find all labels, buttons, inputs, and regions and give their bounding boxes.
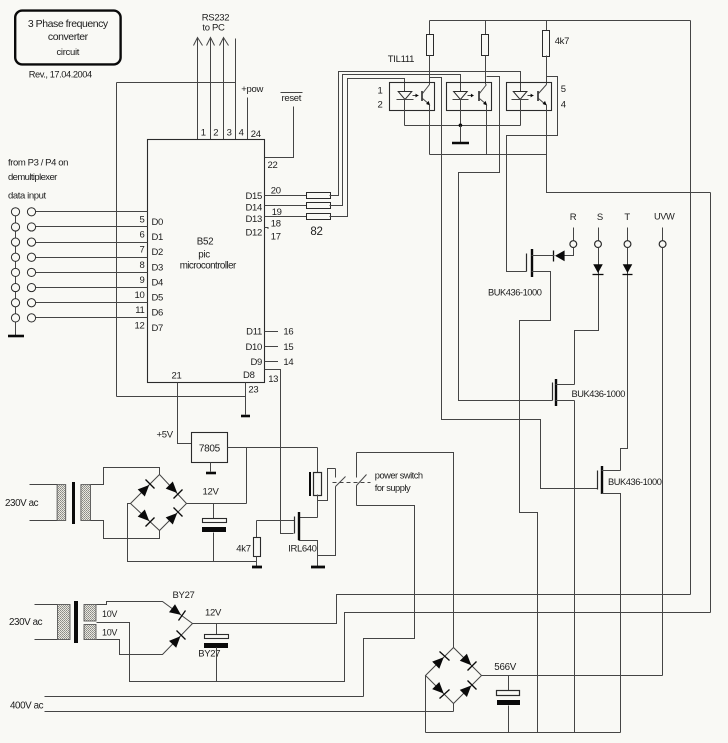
svg-text:Rev., 17.04.2004: Rev., 17.04.2004 bbox=[29, 70, 92, 80]
svg-text:BUK436-1000: BUK436-1000 bbox=[608, 477, 662, 487]
svg-text:14: 14 bbox=[283, 357, 293, 368]
svg-text:S: S bbox=[597, 212, 603, 223]
svg-text:24: 24 bbox=[251, 129, 261, 140]
svg-text:microcontroller: microcontroller bbox=[180, 261, 237, 272]
svg-text:3 Phase frequency: 3 Phase frequency bbox=[28, 18, 109, 30]
svg-text:BY27: BY27 bbox=[173, 590, 195, 601]
svg-text:D8: D8 bbox=[243, 370, 255, 381]
svg-text:+5V: +5V bbox=[157, 430, 174, 441]
svg-text:for supply: for supply bbox=[375, 483, 411, 493]
svg-text:8: 8 bbox=[140, 260, 145, 271]
svg-text:17: 17 bbox=[271, 232, 281, 243]
svg-text:12V: 12V bbox=[205, 608, 222, 619]
svg-text:13: 13 bbox=[268, 374, 278, 385]
svg-text:11: 11 bbox=[135, 305, 144, 316]
svg-text:4k7: 4k7 bbox=[555, 36, 569, 47]
svg-text:D13: D13 bbox=[245, 214, 262, 225]
svg-text:18: 18 bbox=[271, 219, 281, 230]
svg-text:data input: data input bbox=[8, 191, 46, 202]
svg-text:D3: D3 bbox=[152, 262, 164, 273]
svg-text:5: 5 bbox=[561, 84, 566, 95]
svg-text:7: 7 bbox=[140, 245, 145, 256]
svg-text:D4: D4 bbox=[152, 277, 164, 288]
svg-text:21: 21 bbox=[172, 371, 182, 382]
svg-text:D2: D2 bbox=[152, 247, 164, 258]
svg-text:19: 19 bbox=[272, 207, 282, 218]
svg-text:4: 4 bbox=[239, 128, 244, 139]
svg-text:to PC: to PC bbox=[202, 23, 225, 34]
svg-text:20: 20 bbox=[271, 185, 281, 196]
svg-text:400V ac: 400V ac bbox=[10, 700, 44, 711]
svg-text:D6: D6 bbox=[152, 308, 164, 319]
svg-text:BUK436-1000: BUK436-1000 bbox=[572, 389, 626, 399]
svg-text:230V ac: 230V ac bbox=[5, 498, 39, 509]
svg-text:power switch: power switch bbox=[375, 471, 423, 481]
svg-text:15: 15 bbox=[283, 342, 293, 353]
svg-text:D14: D14 bbox=[245, 203, 262, 214]
svg-text:UVW: UVW bbox=[654, 212, 675, 222]
svg-text:reset: reset bbox=[282, 93, 302, 104]
svg-text:12V: 12V bbox=[203, 487, 220, 498]
svg-text:D0: D0 bbox=[152, 217, 164, 228]
svg-text:4k7: 4k7 bbox=[236, 544, 250, 555]
svg-text:B52: B52 bbox=[197, 237, 214, 248]
svg-text:D15: D15 bbox=[245, 191, 262, 202]
svg-text:566V: 566V bbox=[494, 662, 516, 673]
svg-text:10: 10 bbox=[135, 290, 145, 301]
svg-text:9: 9 bbox=[140, 275, 145, 286]
svg-text:22: 22 bbox=[268, 160, 278, 171]
svg-text:4: 4 bbox=[561, 100, 566, 111]
svg-text:1: 1 bbox=[378, 86, 383, 97]
svg-text:2: 2 bbox=[213, 128, 218, 139]
svg-text:1: 1 bbox=[201, 128, 206, 139]
svg-text:D12: D12 bbox=[245, 228, 262, 239]
svg-text:D10: D10 bbox=[245, 342, 262, 353]
svg-text:12: 12 bbox=[135, 320, 145, 331]
svg-text:converter: converter bbox=[48, 31, 89, 43]
svg-text:TIL111: TIL111 bbox=[388, 54, 414, 65]
svg-text:circuit: circuit bbox=[56, 47, 79, 58]
svg-text:T: T bbox=[624, 212, 630, 223]
svg-text:D5: D5 bbox=[152, 293, 164, 304]
svg-text:pic: pic bbox=[198, 250, 210, 261]
svg-text:5: 5 bbox=[140, 214, 145, 225]
svg-text:D1: D1 bbox=[152, 232, 164, 243]
svg-text:23: 23 bbox=[248, 385, 258, 396]
svg-text:D11: D11 bbox=[246, 327, 262, 338]
svg-text:6: 6 bbox=[140, 229, 145, 240]
svg-text:10V: 10V bbox=[102, 628, 117, 638]
svg-text:10V: 10V bbox=[102, 609, 117, 619]
svg-text:BUK436-1000: BUK436-1000 bbox=[488, 288, 542, 298]
svg-text:2: 2 bbox=[378, 100, 383, 111]
svg-text:IRL640: IRL640 bbox=[288, 544, 316, 555]
svg-text:D9: D9 bbox=[250, 357, 262, 368]
svg-text:from P3 / P4 on: from P3 / P4 on bbox=[8, 158, 68, 169]
svg-text:demultiplexer: demultiplexer bbox=[8, 172, 57, 183]
svg-text:3: 3 bbox=[227, 128, 232, 139]
svg-text:+pow: +pow bbox=[241, 84, 263, 95]
svg-text:R: R bbox=[570, 212, 577, 223]
svg-text:7805: 7805 bbox=[199, 444, 221, 455]
svg-text:230V ac: 230V ac bbox=[9, 617, 43, 628]
svg-text:82: 82 bbox=[310, 226, 322, 238]
svg-text:D7: D7 bbox=[152, 323, 164, 334]
svg-text:16: 16 bbox=[283, 327, 293, 338]
